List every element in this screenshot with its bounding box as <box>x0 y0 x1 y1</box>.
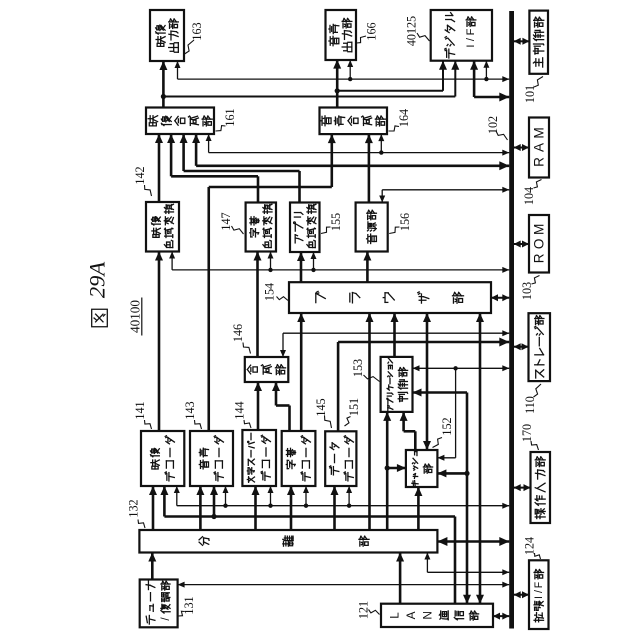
svg-text:40125: 40125 <box>405 16 419 46</box>
svg-text:164: 164 <box>397 109 411 127</box>
svg-text:N: N <box>420 611 434 620</box>
svg-text:163: 163 <box>190 22 204 40</box>
svg-text:153: 153 <box>351 359 365 377</box>
svg-text:124: 124 <box>523 537 537 555</box>
svg-text:156: 156 <box>398 213 412 231</box>
svg-text:29A: 29A <box>85 262 110 299</box>
svg-text:102: 102 <box>486 116 500 134</box>
svg-text:/: / <box>533 590 545 593</box>
svg-text:M: M <box>532 224 547 235</box>
svg-text:141: 141 <box>133 401 147 419</box>
svg-text:155: 155 <box>329 213 343 231</box>
svg-text:101: 101 <box>523 85 537 103</box>
svg-text:152: 152 <box>440 417 454 435</box>
svg-text:143: 143 <box>183 401 197 419</box>
svg-text:O: O <box>532 239 547 250</box>
svg-text:R: R <box>532 157 547 167</box>
svg-text:166: 166 <box>365 22 379 40</box>
svg-text:170: 170 <box>520 424 534 442</box>
svg-text:104: 104 <box>522 187 536 205</box>
svg-text:146: 146 <box>231 324 245 342</box>
svg-text:A: A <box>404 611 418 619</box>
svg-text:154: 154 <box>263 283 277 301</box>
svg-text:L: L <box>388 612 402 619</box>
svg-text:F: F <box>465 28 477 35</box>
svg-text:161: 161 <box>223 108 237 126</box>
svg-text:103: 103 <box>520 282 534 300</box>
svg-text:M: M <box>532 127 547 138</box>
svg-text:147: 147 <box>219 212 233 230</box>
svg-text:145: 145 <box>314 398 328 416</box>
svg-text:F: F <box>533 581 545 588</box>
svg-text:I: I <box>465 44 477 47</box>
svg-text:I: I <box>533 596 545 599</box>
svg-text:151: 151 <box>347 398 361 416</box>
svg-text:142: 142 <box>133 166 147 184</box>
svg-text:40100: 40100 <box>128 300 143 333</box>
svg-text:144: 144 <box>233 401 247 419</box>
svg-text:110: 110 <box>523 396 537 414</box>
svg-text:132: 132 <box>127 499 141 517</box>
svg-text:A: A <box>532 142 547 152</box>
svg-text:R: R <box>532 253 547 263</box>
